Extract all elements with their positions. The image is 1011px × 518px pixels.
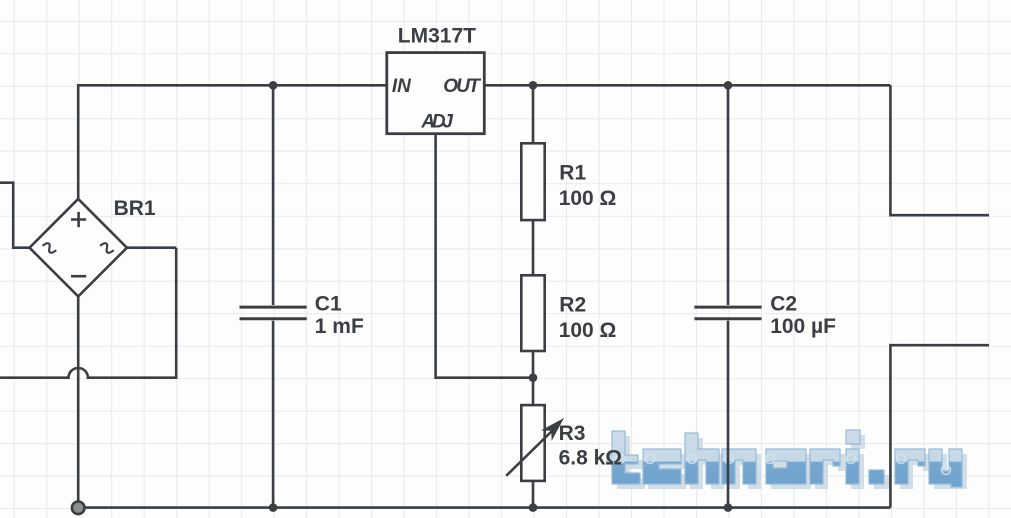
node ADJ/R2/R3 (529, 373, 538, 382)
svg-text:1 mF: 1 mF (315, 315, 364, 338)
svg-text:100 µF: 100 µF (770, 315, 836, 338)
svg-text:R3: R3 (559, 422, 586, 445)
node C2 top (724, 81, 733, 90)
wire bottom rail (78, 506, 890, 509)
resistor R2 (521, 275, 616, 351)
capacitor C1 (240, 293, 364, 339)
svg-text:BR1: BR1 (114, 197, 156, 220)
node C1 top (269, 81, 278, 90)
wire positive output stub (890, 85, 989, 215)
svg-text:OUT: OUT (443, 76, 481, 97)
wire C2 branch (727, 85, 730, 507)
node R3 bottom (529, 503, 538, 512)
wire AC input 2 with hop over bridge minus wire (0, 248, 176, 378)
svg-text:C2: C2 (770, 293, 797, 316)
node C1 bottom (269, 503, 278, 512)
svg-text:IN: IN (392, 76, 412, 97)
wire negative output stub (890, 345, 989, 507)
node R1 top (529, 81, 538, 90)
bridge rectifier BR1 (30, 197, 156, 296)
wire R column (532, 85, 535, 507)
svg-text:LM317T: LM317T (398, 25, 476, 48)
svg-text:C1: C1 (315, 293, 342, 316)
watermark tehnari.ru (607, 430, 967, 489)
wire bridge minus down to bottom rail (77, 296, 80, 507)
svg-text:R2: R2 (559, 293, 586, 316)
wire ADJ to R2/R3 node (436, 134, 533, 378)
wire C1 branch (272, 85, 275, 507)
capacitor C2 (694, 293, 836, 339)
potentiometer R3 (506, 405, 622, 481)
wire AC input 1 stub (0, 183, 30, 248)
wire top rail from bridge to right corner (78, 85, 890, 199)
regulator U1 LM317T (387, 25, 485, 134)
svg-text:100 Ω: 100 Ω (559, 319, 617, 342)
svg-text:R1: R1 (559, 161, 586, 184)
svg-text:ADJ: ADJ (420, 112, 453, 133)
wire bridge right vertex to AC2 (127, 246, 176, 249)
svg-text:6.8 kΩ: 6.8 kΩ (559, 446, 623, 469)
node C2 bottom (724, 503, 733, 512)
terminal bottom left (72, 502, 85, 515)
svg-text:100 Ω: 100 Ω (559, 187, 617, 210)
resistor R1 (521, 143, 616, 220)
